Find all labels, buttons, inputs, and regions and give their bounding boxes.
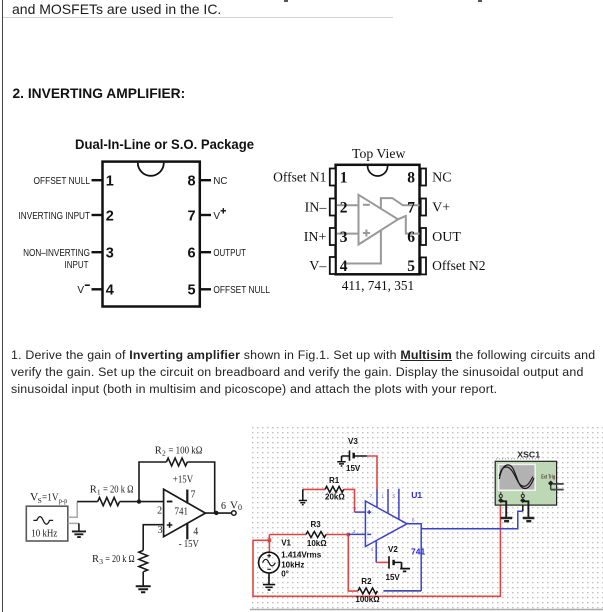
plus mark bbox=[363, 232, 370, 234]
svg-text:OUTPUT: OUTPUT bbox=[213, 248, 246, 259]
svg-text:Ext Trig: Ext Trig bbox=[541, 474, 555, 480]
wire scope B black segment bbox=[522, 501, 524, 511]
ground V3 bbox=[337, 456, 345, 466]
svg-text:OFFSET NULL: OFFSET NULL bbox=[213, 285, 270, 296]
opamp bottom pin 4 bbox=[375, 541, 377, 562]
wire V+ to pin7 bbox=[381, 198, 420, 209]
svg-text:4: 4 bbox=[193, 527, 198, 538]
wire output to pin6 bbox=[398, 216, 420, 234]
svg-text:R: R bbox=[155, 446, 162, 457]
svg-text:V2: V2 bbox=[388, 545, 398, 554]
svg-text:3: 3 bbox=[106, 246, 114, 262]
feedback left vertical bbox=[139, 462, 166, 502]
DIP pin 7 stub bbox=[200, 214, 211, 216]
wire V3 to opamp V+ pin bbox=[367, 456, 377, 489]
ground under A bbox=[501, 518, 513, 521]
opamp + input lead bbox=[355, 511, 366, 513]
svg-text:1.414Vrms: 1.414Vrms bbox=[281, 551, 322, 560]
plus mark bbox=[167, 522, 173, 528]
scope screen bbox=[499, 464, 536, 490]
svg-text:15V: 15V bbox=[386, 573, 401, 582]
svg-text:NON–INVERTING: NON–INVERTING bbox=[23, 248, 90, 259]
scope sine wave 2 bbox=[499, 467, 533, 486]
table cell bottom border bbox=[3, 17, 393, 18]
svg-text:3: 3 bbox=[99, 557, 103, 566]
DIP pin 2 stub bbox=[92, 214, 103, 216]
feedback right vertical to output bbox=[187, 462, 214, 512]
svg-text:IN–: IN– bbox=[305, 201, 328, 216]
svg-text:1: 1 bbox=[340, 169, 348, 186]
svg-text:= 100 kΩ: = 100 kΩ bbox=[168, 446, 202, 457]
svg-text:6: 6 bbox=[188, 246, 196, 262]
svg-text:7: 7 bbox=[191, 490, 196, 501]
svg-text:OUT: OUT bbox=[432, 230, 461, 245]
svg-text:8: 8 bbox=[188, 174, 196, 190]
scope body bbox=[495, 461, 556, 505]
terminal B post bbox=[521, 494, 524, 497]
svg-text:NC: NC bbox=[432, 171, 451, 186]
ground bars by source bbox=[72, 531, 86, 537]
battery V2 plates bbox=[389, 556, 402, 568]
resistor R2 zigzag bbox=[358, 588, 377, 594]
resistor R3 vertical zigzag bbox=[139, 550, 148, 571]
svg-text:10 kHz: 10 kHz bbox=[31, 527, 57, 539]
ext trig gray hook bbox=[551, 484, 564, 490]
Top View IC body bbox=[336, 165, 420, 274]
svg-text:10kHz: 10kHz bbox=[281, 561, 304, 570]
minus mark bbox=[363, 204, 370, 206]
DIP pin 4 stub bbox=[92, 288, 103, 290]
wire V2 red lead bbox=[376, 561, 389, 563]
svg-text:U1: U1 bbox=[411, 490, 422, 500]
scope sine wave 1 bbox=[499, 465, 534, 489]
svg-text:V3: V3 bbox=[348, 437, 358, 446]
cut-off descender marks from previous line bbox=[284, 0, 288, 2]
svg-text:NC: NC bbox=[213, 176, 227, 187]
wire source to R1 bbox=[77, 501, 98, 503]
svg-text:2: 2 bbox=[162, 449, 166, 458]
Top View pin boxes left (1-4) bbox=[330, 169, 336, 275]
Top View notch bbox=[368, 166, 388, 176]
plus input wire down to R3 bbox=[143, 525, 163, 551]
pin4 line bbox=[186, 523, 188, 539]
svg-text:OFFSET NULL: OFFSET NULL bbox=[34, 176, 91, 187]
svg-text:= 20 k Ω: = 20 k Ω bbox=[105, 554, 135, 565]
svg-text:0°: 0° bbox=[281, 570, 289, 579]
plus mark at top input bbox=[367, 510, 371, 514]
wire V1 to R3 bbox=[269, 534, 306, 536]
opamp top pin 1 bbox=[387, 489, 389, 513]
opamp top pin 7 lower part bbox=[376, 489, 378, 507]
svg-text:8: 8 bbox=[407, 169, 415, 186]
svg-text:4: 4 bbox=[340, 258, 348, 275]
svg-text:INPUT: INPUT bbox=[65, 260, 89, 271]
opamp - input lead bbox=[348, 533, 365, 535]
svg-text:3: 3 bbox=[158, 525, 163, 536]
wire V- to pin4 bbox=[345, 230, 381, 263]
DIP pin 6 stub bbox=[200, 251, 211, 253]
ground bars under R3 bbox=[136, 586, 151, 592]
ground V1 bbox=[263, 573, 275, 590]
minus mark at bottom input bbox=[367, 533, 371, 535]
resistor R1 zigzag bbox=[98, 498, 120, 506]
svg-text:5: 5 bbox=[188, 283, 196, 299]
svg-text:Dual-In-Line or S.O. Package: Dual-In-Line or S.O. Package bbox=[75, 136, 254, 152]
svg-text:6: 6 bbox=[407, 229, 415, 246]
svg-text:10kΩ: 10kΩ bbox=[307, 539, 327, 548]
svg-text:R: R bbox=[90, 484, 97, 495]
Top View pin boxes right (8-5) bbox=[421, 169, 426, 275]
wire V1 top vertical bbox=[268, 535, 270, 553]
junction dot inverting node bbox=[347, 533, 350, 536]
svg-text:R: R bbox=[92, 554, 99, 565]
ground V2 bbox=[400, 562, 410, 571]
svg-text:=1V: =1V bbox=[42, 492, 59, 504]
svg-text:5: 5 bbox=[407, 258, 415, 275]
V1 plus mark bbox=[267, 554, 271, 558]
resistor R1 zigzag bbox=[325, 486, 344, 492]
svg-text:1: 1 bbox=[106, 174, 114, 190]
op-amp triangle (Top View) bbox=[359, 195, 399, 245]
svg-text:7: 7 bbox=[188, 208, 196, 224]
B minus hook to ground bbox=[523, 501, 529, 517]
svg-text:XSC1: XSC1 bbox=[517, 450, 540, 459]
section heading bbox=[13, 86, 186, 101]
ground under B bbox=[523, 518, 535, 521]
junction dot V1 branch bbox=[268, 539, 272, 543]
DIP pin 1 stub bbox=[92, 179, 103, 181]
ext trig pin diamond bbox=[548, 480, 554, 486]
pin7 line bbox=[186, 490, 188, 504]
svg-text:7: 7 bbox=[407, 199, 415, 216]
source box VS bbox=[26, 506, 68, 541]
opamp top pin 5 bbox=[398, 489, 400, 520]
svg-text:+15V: +15V bbox=[173, 475, 194, 486]
wire pin3 to plus input bbox=[337, 233, 359, 235]
svg-text:p-p: p-p bbox=[59, 496, 68, 505]
V1 minus mark bbox=[267, 568, 270, 570]
multisim screenshot bottom edge bbox=[250, 609, 603, 611]
DIP pin 5 stub bbox=[200, 288, 211, 290]
paragraph bbox=[11, 347, 595, 398]
wire V1 loop left and bottom to scope A bbox=[253, 501, 500, 596]
svg-text:15V: 15V bbox=[346, 464, 361, 473]
DIP notch bbox=[138, 163, 164, 176]
node dot at inverting input bbox=[137, 499, 141, 503]
svg-text:741: 741 bbox=[411, 546, 425, 556]
svg-text:R3: R3 bbox=[311, 520, 322, 529]
svg-text:4: 4 bbox=[106, 283, 114, 299]
battery V3 plates bbox=[342, 450, 367, 460]
resistor R3 zigzag bbox=[306, 532, 326, 538]
svg-text:IN+: IN+ bbox=[304, 230, 327, 245]
svg-text:20kΩ: 20kΩ bbox=[325, 493, 345, 502]
wire R1 right lead to + input bbox=[344, 489, 355, 512]
svg-text:R2: R2 bbox=[361, 577, 372, 586]
output wire bbox=[205, 512, 231, 514]
resistor R2 zigzag bbox=[166, 458, 187, 466]
op-amp triangle U1 bbox=[365, 501, 407, 547]
wire R3 to inverting node bbox=[326, 534, 348, 536]
source V1 circle bbox=[259, 552, 280, 573]
wire output to scope B bbox=[421, 511, 523, 529]
svg-text:411, 741, 351: 411, 741, 351 bbox=[342, 279, 415, 294]
svg-text:Offset N2: Offset N2 bbox=[432, 259, 485, 274]
svg-text:2: 2 bbox=[340, 199, 348, 216]
svg-text:V+: V+ bbox=[432, 201, 450, 216]
terminal A post bbox=[499, 494, 502, 497]
svg-text:Top View: Top View bbox=[352, 147, 406, 162]
source stub wires bbox=[68, 502, 79, 524]
svg-text:3: 3 bbox=[340, 229, 348, 246]
DIP V- superscript minus bbox=[85, 284, 90, 286]
DIP V+ superscript plus bbox=[221, 208, 226, 213]
wire R1 to node bbox=[120, 501, 164, 503]
op-amp triangle 741 bbox=[164, 489, 206, 537]
wire pin2 to minus input bbox=[337, 204, 359, 206]
svg-text:100kΩ: 100kΩ bbox=[355, 595, 380, 604]
wire R2 right lead bbox=[383, 590, 421, 592]
A minus hook to ground bbox=[501, 501, 506, 517]
svg-text:741: 741 bbox=[175, 507, 189, 518]
svg-text:2: 2 bbox=[157, 505, 162, 516]
svg-text:- 15V: - 15V bbox=[179, 539, 200, 550]
output wire to feedback and scope bbox=[407, 524, 421, 591]
svg-text:6: 6 bbox=[221, 501, 226, 512]
DIP IC body bbox=[103, 162, 200, 307]
svg-text:V1: V1 bbox=[281, 538, 291, 547]
svg-text:V: V bbox=[77, 285, 84, 296]
wire R3 to ground bbox=[142, 572, 144, 586]
DIP pin 8 stub bbox=[200, 179, 211, 181]
open terminal V0 bbox=[232, 511, 237, 516]
wire R1 left lead bbox=[303, 488, 325, 490]
op-amp internal wires (gray) bbox=[337, 195, 420, 264]
ground stem by source bbox=[78, 523, 80, 531]
terminal B connector diamond bbox=[520, 498, 525, 503]
dotted leader under XSC1 bbox=[496, 458, 540, 460]
sine symbol in source box bbox=[33, 517, 53, 525]
svg-text:V0: V0 bbox=[230, 500, 242, 513]
svg-text:INVERTING INPUT: INVERTING INPUT bbox=[19, 211, 91, 222]
svg-text:1: 1 bbox=[97, 487, 101, 496]
ground R1 bbox=[299, 489, 307, 504]
terminal A connector diamond bbox=[498, 498, 503, 503]
node dot at output bbox=[214, 511, 218, 515]
svg-text:Offset N1: Offset N1 bbox=[273, 171, 326, 186]
svg-text:= 20 k Ω: = 20 k Ω bbox=[103, 484, 134, 495]
svg-text:R1: R1 bbox=[329, 476, 340, 485]
svg-text:V–: V– bbox=[309, 259, 327, 274]
minus mark bbox=[167, 501, 173, 503]
page left border bbox=[2, 0, 3, 612]
svg-text:V: V bbox=[213, 211, 220, 222]
svg-text:2: 2 bbox=[106, 208, 114, 224]
top text line bbox=[12, 1, 221, 17]
DIP pin 3 stub bbox=[92, 251, 103, 253]
sine in V1 bbox=[263, 559, 276, 566]
wire feedback node down to R2 bbox=[348, 535, 358, 592]
